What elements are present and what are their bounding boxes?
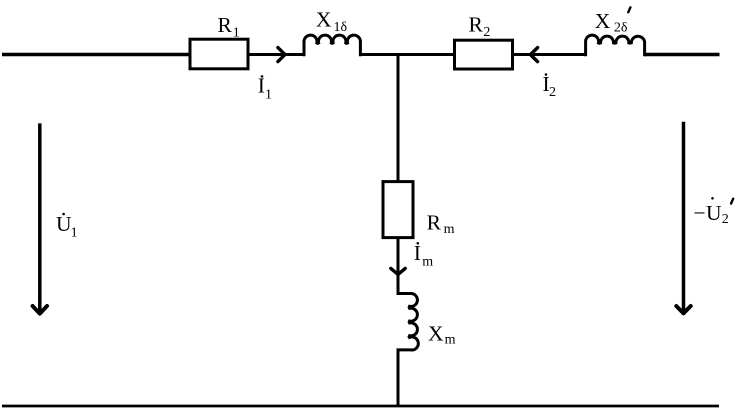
inductor X1δ (coil) <box>304 35 360 56</box>
wire X2δ' to right terminal <box>645 53 720 56</box>
svg-text:1: 1 <box>71 226 78 241</box>
svg-text:X: X <box>316 7 332 31</box>
wire R2 to X2δ' <box>513 53 586 56</box>
svg-text:2δ: 2δ <box>614 20 628 35</box>
svg-text:2: 2 <box>549 85 556 100</box>
wire bottom rail <box>2 405 719 408</box>
voltage arrow U1 (points down) <box>38 123 42 314</box>
wire R1 to X1δ <box>248 53 305 56</box>
wire Rm to Xm <box>397 238 400 294</box>
inductor X2δ' (coil) <box>586 35 645 56</box>
current arrow İ2 (points left) <box>530 48 537 62</box>
svg-text:U: U <box>706 201 722 225</box>
svg-text:X: X <box>428 321 444 345</box>
current arrow İ1 (points right) <box>278 48 285 62</box>
svg-text:2: 2 <box>722 212 729 227</box>
inductor Xm (vertical coil, bumps to the right) <box>397 294 419 350</box>
wire X1δ to R2 (through node T) <box>361 53 455 56</box>
svg-text:m: m <box>422 255 433 270</box>
current arrow İm (points down) <box>391 268 405 274</box>
wire top-left segment (left terminal to R1) <box>2 53 190 56</box>
resistor Rm (vertical box in magnetizing branch) <box>383 182 413 238</box>
voltage arrow -U2' (points down) <box>682 122 686 315</box>
svg-text:1δ: 1δ <box>334 20 348 35</box>
svg-text:R: R <box>469 12 484 36</box>
svg-text:R: R <box>218 13 233 37</box>
resistor R2 <box>455 40 513 69</box>
node T junction (top of magnetizing branch) <box>397 55 400 183</box>
svg-text:m: m <box>445 333 456 348</box>
svg-text:2: 2 <box>483 25 490 40</box>
svg-text:U: U <box>56 212 72 236</box>
svg-text:−: − <box>694 201 706 225</box>
svg-text:1: 1 <box>265 88 272 103</box>
svg-text:1: 1 <box>233 26 240 41</box>
svg-text:X: X <box>595 9 611 33</box>
svg-text:m: m <box>444 222 455 237</box>
wire Xm to bottom rail <box>397 349 400 406</box>
svg-text:R: R <box>427 210 442 234</box>
resistor R1 <box>190 39 248 69</box>
